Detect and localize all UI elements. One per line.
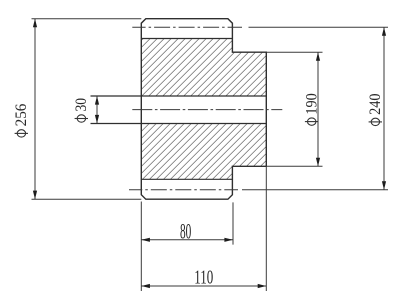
extension line 110 right [265, 166, 267, 291]
dimension line 80 [141, 238, 233, 242]
root line top [141, 38, 232, 40]
extension line phi240 top [249, 26, 389, 28]
root line bottom [141, 178, 232, 180]
svg-text:190: 190 [303, 93, 320, 115]
hatch upper section [141, 39, 266, 97]
bore bottom edge [91, 123, 267, 125]
bore top edge [91, 95, 267, 97]
label 110 [194, 267, 213, 289]
pitch line top (dash-dot) [132, 26, 242, 28]
label 80 [180, 219, 191, 244]
extension line phi190 bottom [266, 165, 322, 167]
svg-text:110: 110 [194, 267, 213, 289]
extension line phi256 bottom [32, 198, 142, 200]
gear rim outline [141, 19, 266, 200]
svg-text:256: 256 [13, 103, 30, 126]
extension line phi256 top [32, 18, 142, 20]
dimension line phi256 [33, 19, 37, 200]
pitch line bottom (dash-dot) [129, 189, 238, 191]
label phi256 [13, 103, 30, 137]
extension line 80 right [232, 202, 234, 244]
svg-text:240: 240 [367, 93, 384, 115]
dimension line phi240 [382, 27, 386, 190]
dimension line phi190 [316, 52, 320, 166]
center line (dash-dot) [132, 109, 282, 111]
svg-text:80: 80 [180, 219, 191, 244]
dimension line 110 [141, 284, 266, 288]
label phi30 [73, 98, 90, 123]
extension line 80/110 left [140, 202, 142, 292]
hatch lower section [141, 124, 266, 180]
svg-text:30: 30 [73, 98, 90, 112]
dimension line phi30 [95, 96, 99, 124]
label phi190 [303, 93, 320, 125]
extension line phi240 bottom [242, 189, 388, 191]
label phi240 [367, 93, 384, 125]
extension line phi190 top [266, 51, 322, 53]
